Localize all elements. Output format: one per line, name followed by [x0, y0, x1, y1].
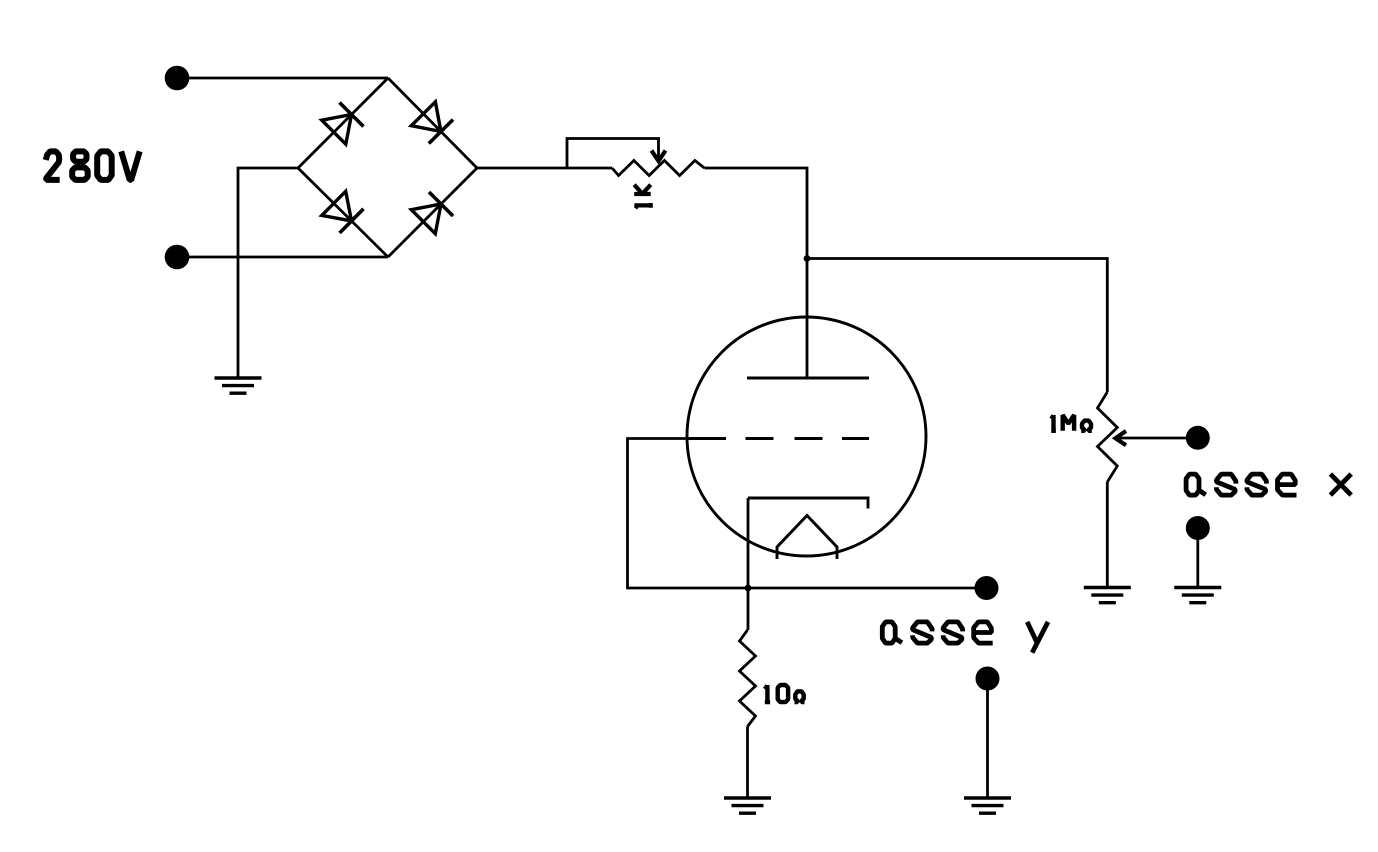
wire	[1106, 482, 1109, 588]
label asse y	[882, 622, 1048, 653]
wire	[177, 77, 388, 80]
terminal asse x	[1186, 426, 1210, 450]
ground	[1084, 588, 1131, 603]
terminal asse x ground	[1186, 516, 1210, 540]
label asse x	[1186, 474, 1351, 495]
resistor 10Ω	[740, 630, 756, 727]
terminal 280V top	[165, 66, 190, 91]
label 280V	[46, 151, 140, 180]
diode D1 (bridge upper-left)	[298, 78, 388, 168]
tube anode plate	[747, 377, 869, 380]
junction node	[804, 255, 811, 262]
diode D4 (bridge lower-right)	[388, 168, 477, 257]
terminal asse y	[975, 576, 999, 600]
wire	[807, 259, 1107, 393]
wire	[477, 167, 612, 170]
terminal 280V bottom	[165, 245, 190, 270]
wire	[704, 168, 807, 378]
junction node	[745, 585, 752, 592]
tube heater filament	[777, 516, 837, 560]
diode D2 (bridge upper-right)	[388, 78, 477, 168]
label 1K	[634, 185, 651, 208]
wire	[747, 498, 750, 630]
diode D3 (bridge lower-left)	[298, 168, 388, 257]
ground	[964, 798, 1011, 813]
wire	[986, 679, 989, 799]
label 10Ω	[765, 685, 805, 702]
wire	[1196, 528, 1199, 588]
terminal asse y ground	[976, 667, 1000, 691]
wire	[746, 727, 749, 799]
wire	[238, 168, 298, 378]
tube cathode	[748, 498, 868, 509]
potentiometer 1K	[567, 139, 704, 176]
potentiometer 1MΩ	[1098, 392, 1197, 482]
wire	[628, 439, 976, 589]
tube grid (dashed)	[687, 437, 869, 440]
wire	[177, 256, 388, 259]
vacuum tube envelope	[687, 317, 926, 556]
ground	[724, 798, 771, 813]
label 1MΩ	[1051, 415, 1092, 431]
ground	[215, 378, 262, 393]
ground	[1174, 588, 1221, 603]
